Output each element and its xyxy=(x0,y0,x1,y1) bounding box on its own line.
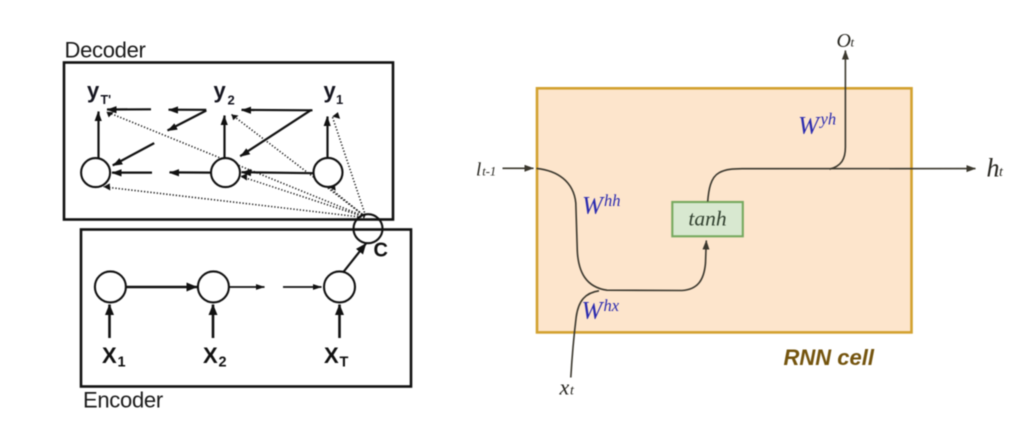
svg-text:yh: yh xyxy=(819,110,837,129)
svg-text:x: x xyxy=(559,375,570,400)
svg-text:l: l xyxy=(476,160,481,181)
svg-text:1: 1 xyxy=(336,92,343,107)
svg-text:W: W xyxy=(798,112,821,139)
svg-text:y: y xyxy=(324,78,337,103)
svg-text:T: T xyxy=(340,355,349,371)
svg-text:y: y xyxy=(214,78,227,103)
svg-text:Encoder: Encoder xyxy=(83,388,163,413)
svg-text:W: W xyxy=(582,192,605,219)
svg-text:t: t xyxy=(570,383,575,398)
svg-text:X: X xyxy=(102,343,117,368)
svg-text:hh: hh xyxy=(604,191,621,210)
svg-text:y: y xyxy=(87,78,100,103)
svg-text:O: O xyxy=(837,30,851,52)
svg-text:hx: hx xyxy=(604,296,620,315)
svg-text:2: 2 xyxy=(219,355,227,371)
svg-text:C: C xyxy=(374,240,388,262)
svg-text:t-1: t-1 xyxy=(482,165,496,179)
svg-text:h: h xyxy=(987,153,1000,182)
svg-text:T': T' xyxy=(101,93,112,107)
svg-text:2: 2 xyxy=(228,93,235,108)
svg-text:W: W xyxy=(582,298,605,325)
svg-text:t: t xyxy=(999,165,1004,180)
svg-text:X: X xyxy=(203,343,218,368)
svg-text:1: 1 xyxy=(118,355,126,371)
svg-text:t: t xyxy=(851,35,855,50)
svg-text:RNN cell: RNN cell xyxy=(784,345,875,370)
svg-text:X: X xyxy=(324,343,339,368)
svg-text:Decoder: Decoder xyxy=(65,38,146,63)
svg-text:tanh: tanh xyxy=(688,207,726,231)
